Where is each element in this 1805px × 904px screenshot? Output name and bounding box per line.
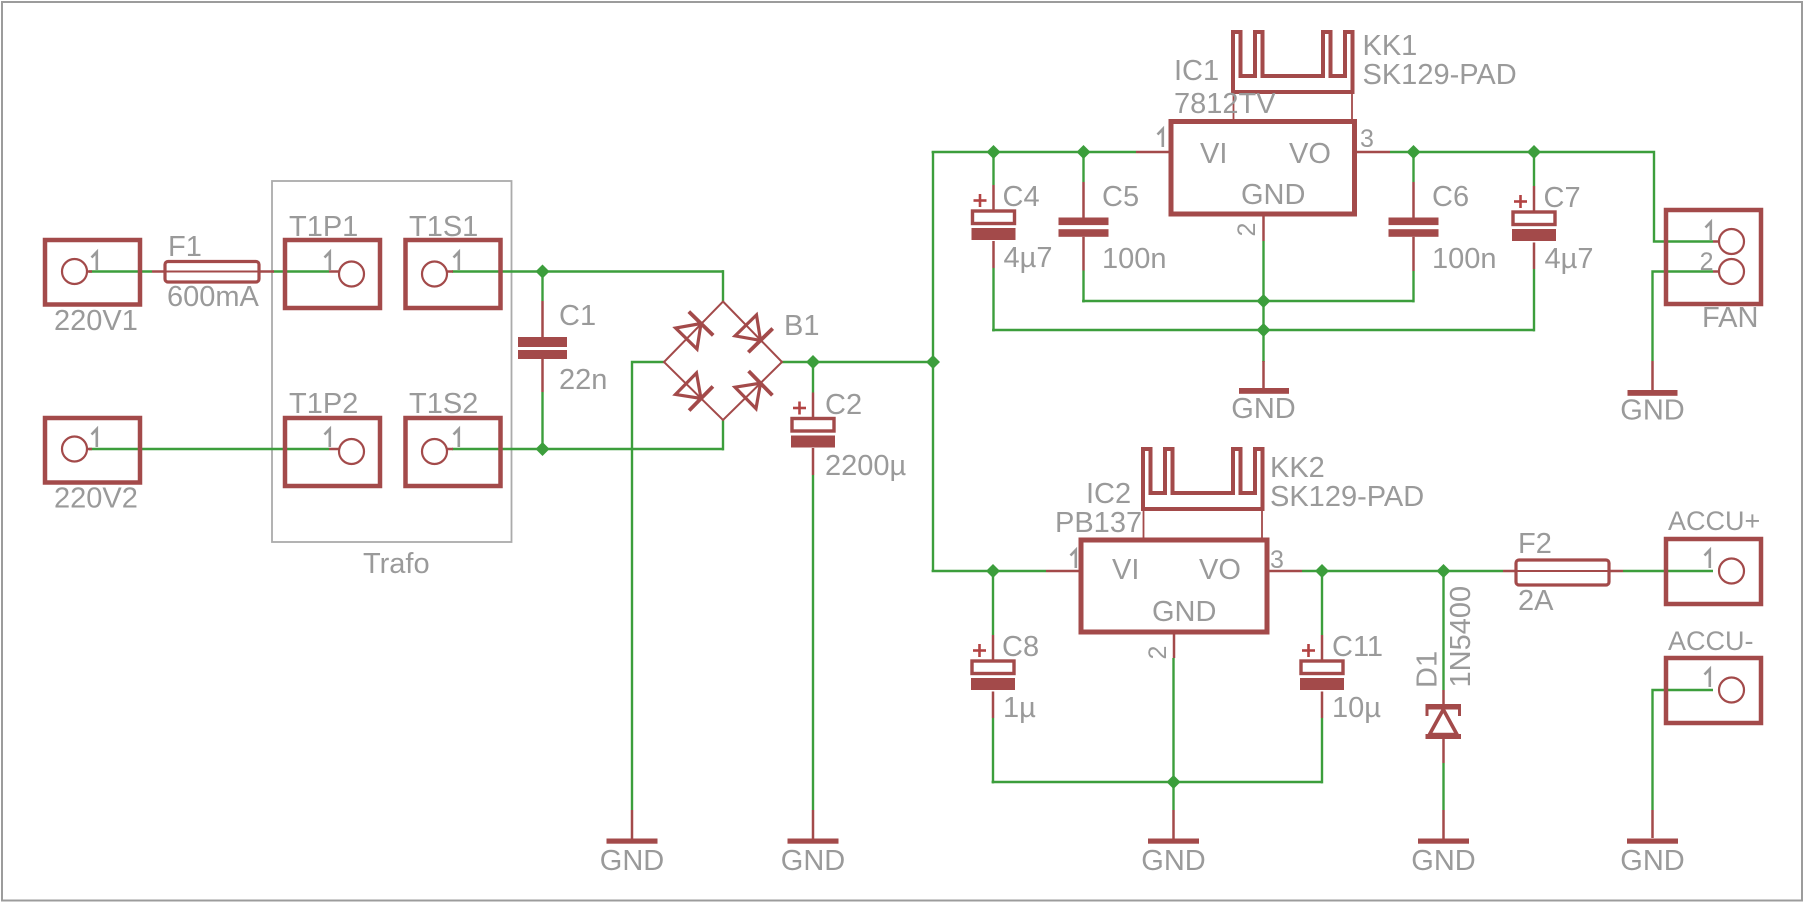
- svg-text:1N5400: 1N5400: [1445, 586, 1477, 688]
- svg-text:VO: VO: [1289, 138, 1331, 170]
- svg-text:B1: B1: [784, 310, 819, 342]
- svg-text:PB137: PB137: [1055, 507, 1142, 539]
- svg-text:KK1: KK1: [1363, 30, 1418, 62]
- svg-text:4µ7: 4µ7: [1545, 243, 1594, 275]
- svg-text:ACCU+: ACCU+: [1668, 506, 1760, 536]
- svg-text:D1: D1: [1412, 651, 1444, 688]
- svg-text:IC2: IC2: [1086, 478, 1131, 510]
- svg-text:GND: GND: [1152, 596, 1216, 628]
- svg-text:Trafo: Trafo: [363, 548, 430, 580]
- svg-text:GND: GND: [1141, 845, 1205, 877]
- svg-text:FAN: FAN: [1702, 302, 1758, 334]
- svg-text:F1: F1: [168, 231, 202, 263]
- svg-text:VI: VI: [1112, 554, 1139, 586]
- svg-text:GND: GND: [600, 845, 664, 877]
- svg-text:100n: 100n: [1102, 243, 1167, 275]
- svg-text:GND: GND: [781, 845, 845, 877]
- svg-text:2: 2: [1233, 223, 1261, 237]
- svg-text:GND: GND: [1411, 845, 1475, 877]
- svg-text:T1S1: T1S1: [409, 211, 478, 243]
- svg-text:VI: VI: [1200, 138, 1227, 170]
- svg-text:C4: C4: [1003, 181, 1040, 213]
- svg-text:C8: C8: [1002, 631, 1039, 663]
- svg-text:C1: C1: [559, 300, 596, 332]
- svg-text:T1P1: T1P1: [289, 211, 358, 243]
- svg-text:GND: GND: [1231, 393, 1295, 425]
- svg-text:KK2: KK2: [1270, 452, 1325, 484]
- svg-text:600mA: 600mA: [167, 281, 260, 313]
- svg-text:7812TV: 7812TV: [1174, 88, 1276, 120]
- svg-text:GND: GND: [1620, 395, 1684, 427]
- svg-text:F2: F2: [1518, 528, 1552, 560]
- svg-text:C2: C2: [825, 389, 862, 421]
- svg-text:GND: GND: [1620, 845, 1684, 877]
- svg-text:3: 3: [1360, 125, 1374, 153]
- svg-text:T1S2: T1S2: [409, 388, 478, 420]
- svg-text:2: 2: [1144, 646, 1172, 660]
- svg-text:GND: GND: [1241, 179, 1305, 211]
- svg-text:IC1: IC1: [1174, 55, 1219, 87]
- svg-text:4µ7: 4µ7: [1004, 242, 1053, 274]
- svg-text:ACCU-: ACCU-: [1668, 626, 1754, 656]
- svg-text:C5: C5: [1102, 181, 1139, 213]
- svg-text:22n: 22n: [559, 364, 607, 396]
- svg-text:T1P2: T1P2: [289, 388, 358, 420]
- svg-text:C7: C7: [1544, 182, 1581, 214]
- svg-text:SK129-PAD: SK129-PAD: [1363, 59, 1517, 91]
- svg-text:2A: 2A: [1518, 585, 1554, 617]
- svg-text:220V2: 220V2: [54, 483, 138, 515]
- svg-text:10µ: 10µ: [1332, 692, 1381, 724]
- svg-text:VO: VO: [1199, 554, 1241, 586]
- svg-text:2200µ: 2200µ: [825, 450, 907, 482]
- svg-text:SK129-PAD: SK129-PAD: [1270, 481, 1424, 513]
- svg-text:100n: 100n: [1432, 243, 1497, 275]
- svg-text:220V1: 220V1: [54, 305, 138, 337]
- svg-text:1µ: 1µ: [1003, 692, 1036, 724]
- svg-text:C6: C6: [1432, 181, 1469, 213]
- svg-text:C11: C11: [1332, 631, 1383, 663]
